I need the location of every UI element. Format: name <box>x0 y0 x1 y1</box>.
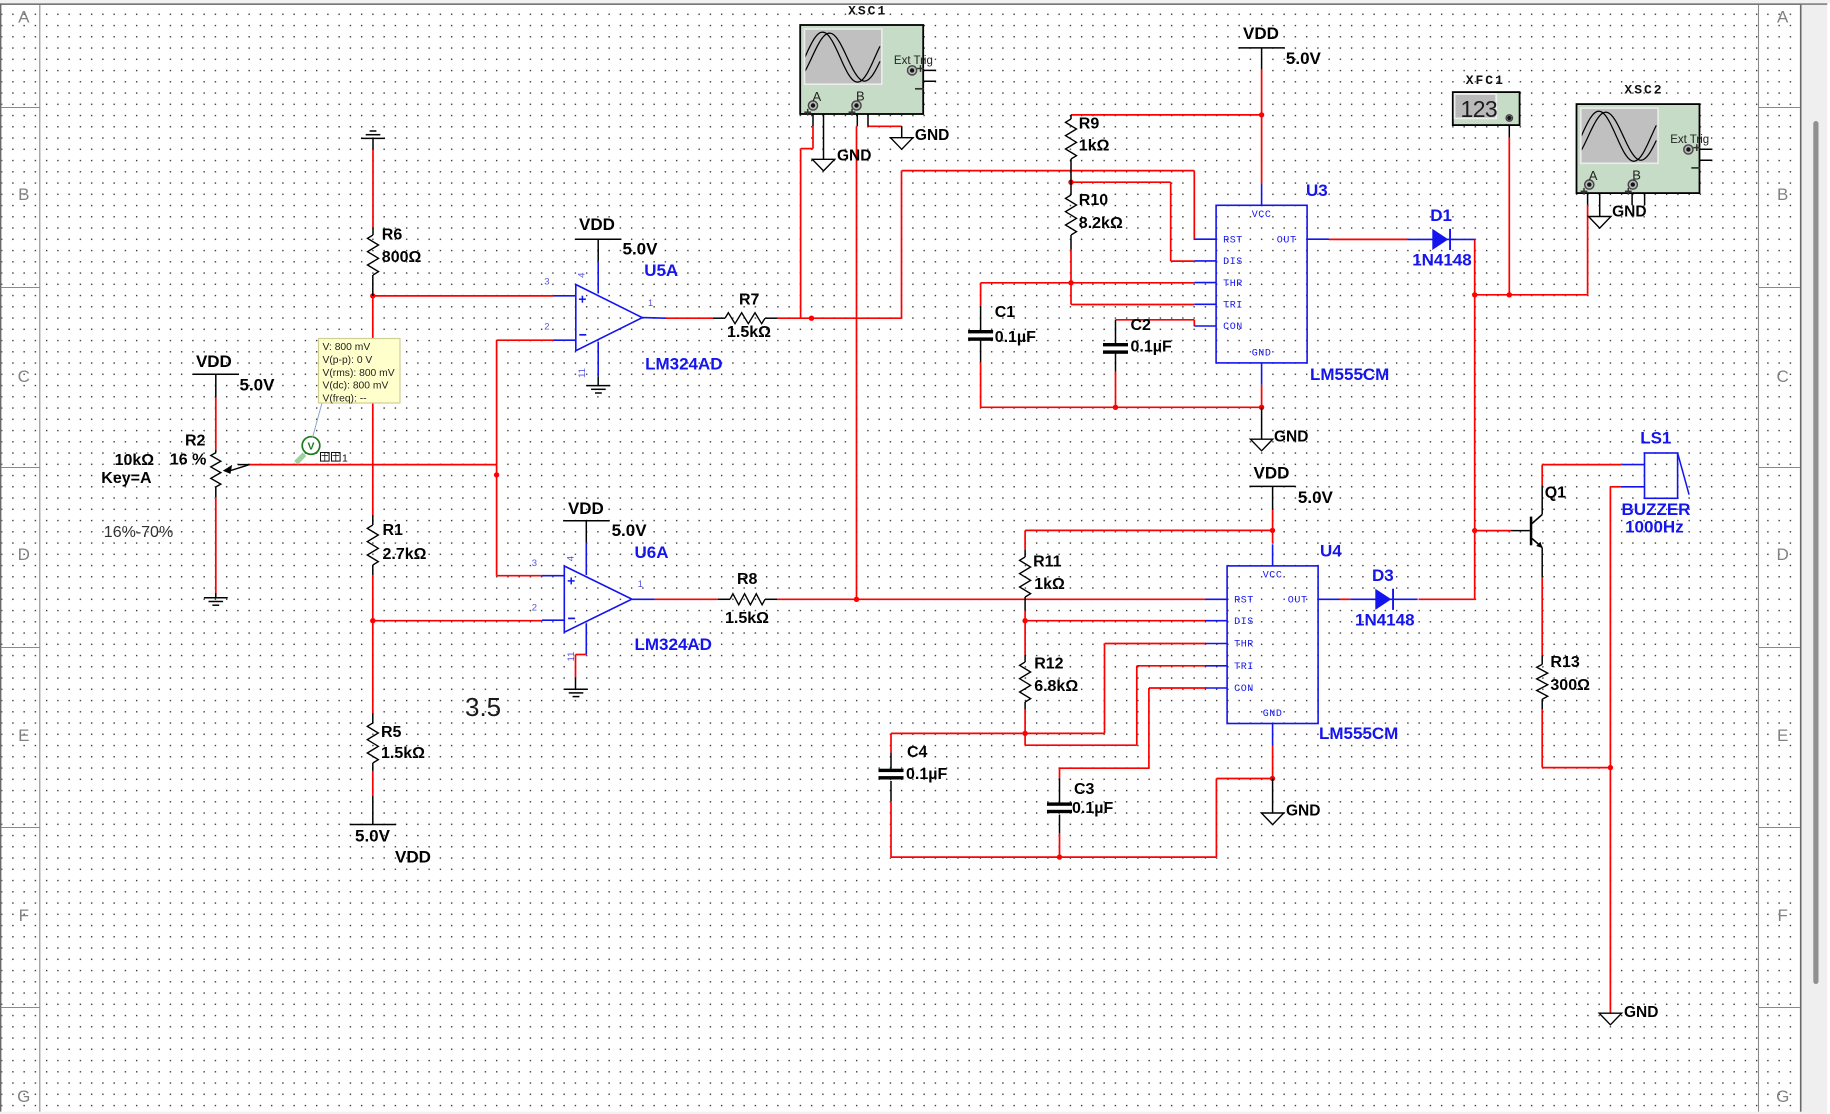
svg-text:VDD: VDD <box>395 848 431 867</box>
svg-text:1.5kΩ: 1.5kΩ <box>725 610 769 627</box>
svg-text:A: A <box>18 8 30 27</box>
svg-text:R6: R6 <box>382 227 403 244</box>
svg-text:5.0V: 5.0V <box>240 375 276 394</box>
svg-text:LS1: LS1 <box>1640 429 1671 448</box>
svg-text:U5A: U5A <box>644 261 678 280</box>
svg-text:0.1µF: 0.1µF <box>906 766 947 783</box>
svg-text:3: 3 <box>532 558 537 569</box>
svg-text:0.1µF: 0.1µF <box>995 329 1036 346</box>
svg-text:11: 11 <box>566 652 577 662</box>
svg-text:V(dc): 800 mV: V(dc): 800 mV <box>323 381 389 392</box>
svg-text:10kΩ: 10kΩ <box>115 452 155 469</box>
svg-text:6.8kΩ: 6.8kΩ <box>1034 678 1078 695</box>
svg-text:C3: C3 <box>1074 781 1095 798</box>
svg-text:RST: RST <box>1234 596 1254 607</box>
svg-text:1: 1 <box>342 453 348 465</box>
svg-text:0.1µF: 0.1µF <box>1072 800 1113 817</box>
svg-text:TRI: TRI <box>1223 301 1243 312</box>
svg-text:RST: RST <box>1223 235 1243 246</box>
svg-text:GND: GND <box>1263 709 1283 720</box>
svg-text:LM555CM: LM555CM <box>1319 724 1398 743</box>
svg-text:11: 11 <box>577 368 588 378</box>
svg-text:D: D <box>1777 545 1789 564</box>
svg-text:G: G <box>17 1087 30 1106</box>
svg-text:GND: GND <box>915 127 949 144</box>
svg-text:R10: R10 <box>1079 192 1108 209</box>
svg-text:R12: R12 <box>1034 656 1063 673</box>
svg-text:CON: CON <box>1234 684 1254 695</box>
svg-text:GND: GND <box>1274 429 1308 446</box>
svg-text:LM555CM: LM555CM <box>1310 365 1389 384</box>
svg-text:A: A <box>1589 168 1598 183</box>
svg-text:C4: C4 <box>907 744 928 761</box>
svg-text:R5: R5 <box>381 724 402 741</box>
svg-text:U4: U4 <box>1320 542 1342 561</box>
svg-text:5.0V: 5.0V <box>1298 488 1334 507</box>
svg-text:D1: D1 <box>1430 206 1452 225</box>
svg-text:F: F <box>1778 906 1788 925</box>
svg-text:LM324AD: LM324AD <box>645 355 722 374</box>
svg-text:DIS: DIS <box>1234 617 1254 628</box>
svg-text:1: 1 <box>638 579 643 590</box>
svg-text:D: D <box>18 545 30 564</box>
svg-text:BUZZER: BUZZER <box>1622 500 1691 519</box>
svg-text:VDD: VDD <box>1243 24 1279 43</box>
svg-text:Key=A: Key=A <box>101 470 152 487</box>
svg-text:C: C <box>18 367 30 386</box>
svg-text:F: F <box>19 906 29 925</box>
svg-text:VDD: VDD <box>568 499 604 518</box>
svg-text:2: 2 <box>544 321 549 332</box>
svg-text:300Ω: 300Ω <box>1550 677 1590 694</box>
svg-text:R2: R2 <box>185 433 206 450</box>
svg-text:1N4148: 1N4148 <box>1412 251 1472 270</box>
svg-text:C2: C2 <box>1131 317 1152 334</box>
svg-text:5.0V: 5.0V <box>623 239 659 258</box>
svg-text:CON: CON <box>1223 322 1243 333</box>
svg-text:123: 123 <box>1461 96 1498 122</box>
svg-text:XFC1: XFC1 <box>1466 73 1505 88</box>
svg-text:4: 4 <box>577 273 588 278</box>
svg-text:OUT: OUT <box>1288 596 1308 607</box>
svg-text:A: A <box>1777 8 1789 27</box>
svg-text:4: 4 <box>566 556 577 561</box>
svg-text:V(rms): 800 mV: V(rms): 800 mV <box>323 368 395 379</box>
svg-text:THR: THR <box>1223 279 1243 290</box>
svg-text:A: A <box>813 89 822 104</box>
svg-text:5.0V: 5.0V <box>1286 49 1322 68</box>
svg-text:R9: R9 <box>1079 116 1100 133</box>
svg-text:V(freq): --: V(freq): -- <box>323 394 367 405</box>
svg-text:R13: R13 <box>1550 654 1579 671</box>
svg-text:VCC: VCC <box>1263 570 1283 581</box>
svg-text:R7: R7 <box>739 292 760 309</box>
svg-text:G: G <box>1776 1087 1789 1106</box>
svg-text:0.1µF: 0.1µF <box>1131 338 1172 355</box>
svg-text:OUT: OUT <box>1277 235 1297 246</box>
svg-text:XSC2: XSC2 <box>1624 83 1663 98</box>
svg-text:U3: U3 <box>1306 181 1328 200</box>
svg-text:C1: C1 <box>995 304 1016 321</box>
svg-text:B: B <box>1632 167 1641 182</box>
svg-text:V(p-p): 0 V: V(p-p): 0 V <box>323 355 373 366</box>
svg-text:1000Hz: 1000Hz <box>1625 518 1684 537</box>
svg-text:16 %: 16 % <box>170 451 206 468</box>
svg-text:E: E <box>18 726 29 745</box>
svg-text:1.5kΩ: 1.5kΩ <box>381 745 425 762</box>
svg-text:VCC: VCC <box>1252 210 1272 221</box>
svg-text:GND: GND <box>1612 204 1646 221</box>
svg-text:E: E <box>1777 726 1788 745</box>
svg-text:Q1: Q1 <box>1545 485 1566 502</box>
svg-text:XSC1: XSC1 <box>848 4 887 19</box>
svg-text:DIS: DIS <box>1223 257 1243 268</box>
svg-text:THR: THR <box>1234 640 1254 651</box>
svg-text:5.0V: 5.0V <box>612 521 648 540</box>
svg-text:Ext Trig: Ext Trig <box>894 55 933 67</box>
svg-text:3.5: 3.5 <box>465 692 501 722</box>
svg-text:1.5kΩ: 1.5kΩ <box>727 324 771 341</box>
svg-text:GND: GND <box>1252 348 1272 359</box>
svg-text:5.0V: 5.0V <box>355 827 391 846</box>
svg-text:B: B <box>856 88 865 103</box>
svg-text:D3: D3 <box>1372 566 1394 585</box>
svg-text:C: C <box>1777 367 1789 386</box>
svg-text:Ext Trig: Ext Trig <box>1670 134 1709 146</box>
svg-text:1: 1 <box>648 298 653 309</box>
svg-text:U6A: U6A <box>635 543 669 562</box>
svg-text:VDD: VDD <box>1254 464 1290 483</box>
svg-text:1kΩ: 1kΩ <box>1034 576 1065 593</box>
svg-text:R8: R8 <box>737 571 758 588</box>
svg-text:VDD: VDD <box>579 215 615 234</box>
svg-text:B: B <box>1777 185 1788 204</box>
svg-text:GND: GND <box>837 148 871 165</box>
svg-text:16%-70%: 16%-70% <box>104 524 173 541</box>
svg-text:1kΩ: 1kΩ <box>1079 137 1110 154</box>
svg-text:LM324AD: LM324AD <box>635 635 712 654</box>
svg-text:V: V <box>307 440 314 452</box>
svg-text:3: 3 <box>544 277 549 288</box>
svg-text:B: B <box>18 185 29 204</box>
svg-text:GND: GND <box>1624 1004 1658 1021</box>
svg-text:2: 2 <box>532 603 537 614</box>
svg-text:V: 800 mV: V: 800 mV <box>323 342 371 353</box>
svg-text:VDD: VDD <box>196 352 232 371</box>
svg-text:R11: R11 <box>1033 554 1062 571</box>
svg-text:8.2kΩ: 8.2kΩ <box>1079 215 1123 232</box>
svg-text:800Ω: 800Ω <box>382 249 422 266</box>
svg-text:R1: R1 <box>383 522 404 539</box>
svg-text:2.7kΩ: 2.7kΩ <box>383 546 427 563</box>
svg-text:1N4148: 1N4148 <box>1355 611 1415 630</box>
svg-text:TRI: TRI <box>1234 662 1254 673</box>
svg-text:GND: GND <box>1286 803 1320 820</box>
